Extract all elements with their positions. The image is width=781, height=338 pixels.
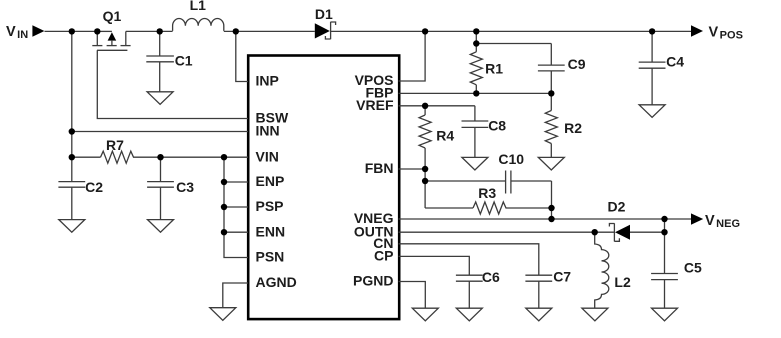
svg-text:ENP: ENP: [256, 173, 285, 189]
svg-text:PSP: PSP: [256, 198, 284, 214]
svg-text:D2: D2: [608, 199, 626, 215]
svg-text:L2: L2: [614, 274, 631, 290]
svg-text:R3: R3: [478, 185, 496, 201]
svg-text:C2: C2: [85, 179, 103, 195]
svg-text:D1: D1: [315, 6, 333, 22]
svg-text:AGND: AGND: [256, 274, 297, 290]
svg-text:VIN: VIN: [256, 148, 279, 164]
svg-text:R4: R4: [436, 128, 454, 144]
svg-text:R1: R1: [485, 60, 503, 76]
svg-text:INN: INN: [256, 123, 280, 139]
svg-text:L1: L1: [190, 0, 207, 13]
svg-text:VNEG: VNEG: [705, 213, 740, 230]
svg-text:CP: CP: [374, 248, 393, 264]
svg-text:R7: R7: [106, 137, 124, 153]
svg-text:ENN: ENN: [256, 223, 286, 239]
svg-text:FBN: FBN: [365, 160, 394, 176]
svg-text:C4: C4: [666, 53, 684, 69]
svg-text:PGND: PGND: [353, 273, 393, 289]
svg-text:INP: INP: [256, 73, 279, 89]
svg-text:C5: C5: [684, 260, 702, 276]
svg-text:PSN: PSN: [256, 249, 285, 265]
svg-text:R2: R2: [564, 120, 582, 136]
svg-text:C7: C7: [553, 268, 571, 284]
svg-text:C10: C10: [498, 151, 524, 167]
svg-text:VPOS: VPOS: [709, 24, 743, 41]
svg-text:C8: C8: [488, 118, 506, 134]
svg-text:Q1: Q1: [103, 8, 122, 24]
svg-text:C9: C9: [568, 56, 586, 72]
svg-text:C6: C6: [482, 269, 500, 285]
svg-text:C1: C1: [175, 52, 193, 68]
svg-text:VIN: VIN: [6, 24, 28, 41]
svg-text:VREF: VREF: [356, 97, 394, 113]
svg-text:C3: C3: [176, 179, 194, 195]
